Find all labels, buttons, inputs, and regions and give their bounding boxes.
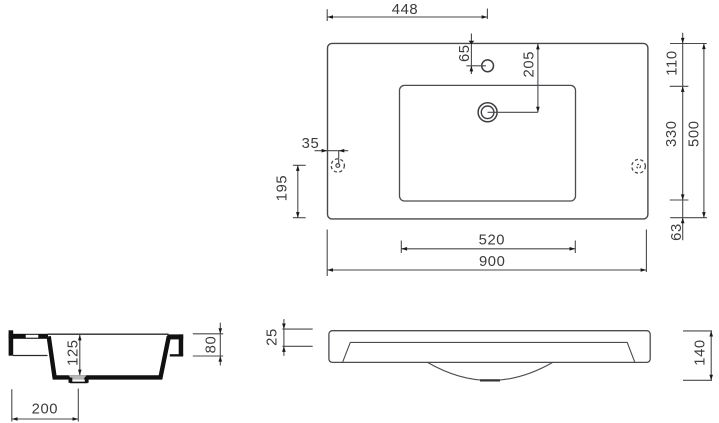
dimension 520 [401,241,575,254]
svg-text:195: 195 [274,175,290,202]
svg-text:63: 63 [669,223,685,241]
dimension 140 [683,331,712,380]
front view bowl arc [428,362,553,380]
svg-text:125: 125 [66,339,82,366]
svg-text:140: 140 [692,339,708,366]
front view inner rim trapezoid [343,342,635,362]
side: right hook foot [170,354,183,356]
right side dimension chain ticks [670,33,707,241]
dimension 35 [315,151,349,164]
side: left vertical bar [9,330,14,355]
svg-text:448: 448 [392,2,419,18]
dimension line 500 [703,44,705,218]
dimension 205 [488,43,538,112]
side: rim underside line [13,355,48,357]
dimension 200 [12,389,79,422]
svg-text:35: 35 [302,136,320,152]
top view: right overflow hole (hidden, dashed) [632,160,646,174]
side: right hook vertical [179,334,184,355]
top view: faucet hole [482,60,494,72]
front view outer outline [329,331,650,363]
side: drain flange [69,378,73,383]
top view: drain hole outer [478,103,497,122]
svg-text:330: 330 [664,120,680,147]
side: right rim horizontal bar [167,334,183,339]
side: top rim bar [9,334,48,339]
svg-text:900: 900 [479,254,506,270]
top view: basin outer outline [328,43,648,219]
side: tap hole slot (white notch) [26,335,39,338]
side: top surface line [48,333,169,335]
svg-text:25: 25 [265,328,281,346]
arrows 500 [702,44,706,50]
dimension line 110/330/63 [682,33,684,241]
arrows 110 (outside) [681,38,685,44]
svg-text:520: 520 [479,233,506,249]
dimension 195 [293,165,306,217]
side: drain gray trapezoid [69,375,87,379]
dimension 25 [282,319,312,356]
side: bowl profile thick outline [49,336,169,377]
dimension 900 [327,230,646,277]
front view drain bump [480,379,500,381]
svg-text:200: 200 [32,402,59,418]
side: drain white slot [72,379,85,382]
arrows 330 / 63 [681,194,685,200]
svg-text:80: 80 [204,336,220,354]
dimension 448 [327,9,487,22]
top view: bowl inner outline [400,85,576,201]
top view: drain hole inner [481,106,494,119]
svg-text:65: 65 [457,44,473,62]
top view: left overflow hole (hidden, dashed) [331,159,344,172]
dimension 80 [193,323,223,366]
svg-text:205: 205 [521,51,537,78]
dimension 65 [466,34,486,75]
svg-text:110: 110 [664,50,680,75]
svg-text:500: 500 [686,120,702,147]
side view section [9,330,184,356]
dimension 125 [79,335,81,375]
